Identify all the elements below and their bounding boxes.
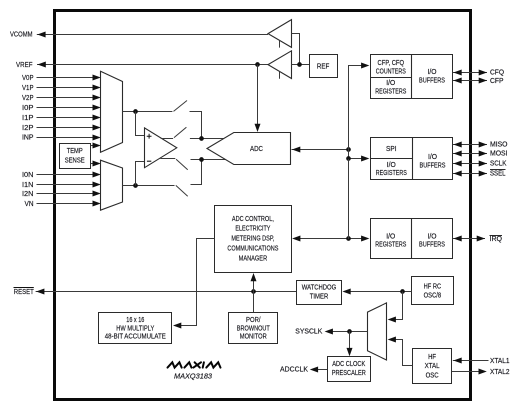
- wire VREF to ADC: [255, 65, 261, 132]
- svg-text:REGISTERS: REGISTERS: [376, 170, 407, 177]
- svg-text:I1P: I1P: [22, 115, 34, 122]
- wire CFP: [453, 78, 487, 84]
- clock mux: [368, 303, 387, 360]
- wire VN: [37, 201, 101, 207]
- svg-text:48-BIT ACCUMULATE: 48-BIT ACCUMULATE: [105, 334, 166, 341]
- wire MISO: [453, 142, 487, 148]
- svg-text:I2P: I2P: [22, 125, 34, 132]
- wire I2N: [37, 191, 101, 197]
- svg-text:MAXQ3183: MAXQ3183: [174, 373, 212, 380]
- svg-text:V1P: V1P: [22, 85, 34, 92]
- wire op-amp upper output: [161, 138, 173, 140]
- node REF output: [291, 62, 309, 67]
- svg-text:HF RC: HF RC: [424, 283, 442, 290]
- temp sense block: [60, 144, 91, 169]
- svg-text:REGISTERS: REGISTERS: [375, 89, 406, 96]
- wire I1P: [37, 115, 101, 121]
- POR brownout monitor block: [229, 313, 278, 344]
- svg-text:I1N: I1N: [22, 182, 34, 189]
- svg-text:REGISTERS: REGISTERS: [375, 242, 406, 249]
- svg-text:ADC CLOCK: ADC CLOCK: [332, 361, 365, 368]
- svg-text:TEMP: TEMP: [67, 148, 83, 155]
- svg-text:COMMUNICATIONS: COMMUNICATIONS: [227, 246, 278, 253]
- wire V0P: [37, 75, 101, 81]
- wire ADC lower input: [191, 157, 226, 162]
- svg-text:I/O: I/O: [386, 80, 396, 87]
- svg-text:SENSE: SENSE: [65, 158, 85, 165]
- svg-text:I/O: I/O: [428, 154, 438, 161]
- wire ADCCLK: [310, 367, 327, 373]
- wire I0P: [37, 105, 101, 111]
- wire op-amp - input: [136, 162, 145, 186]
- svg-text:I2N: I2N: [22, 191, 34, 198]
- svg-text:BUFFERS: BUFFERS: [419, 242, 445, 249]
- svg-text:CFP: CFP: [490, 78, 504, 85]
- wire bus to IO registers / ADC control (bidirectional): [292, 236, 369, 242]
- svg-text:I0P: I0P: [22, 105, 34, 112]
- wire I2P: [37, 125, 101, 131]
- chip outline MAXQ3183: [55, 11, 471, 400]
- wire lower mux output: [122, 183, 174, 188]
- SPI + IO registers + IO buffers block: [370, 137, 453, 179]
- svg-text:OSC: OSC: [426, 373, 439, 380]
- wire switch D to ADC bus: [191, 160, 202, 185]
- pin label IRQ (active low): [490, 236, 503, 244]
- svg-text:WATCHDOG: WATCHDOG: [302, 285, 337, 292]
- ADC control electricity metering DSP communications manager block U3: [215, 206, 292, 273]
- svg-text:SPI: SPI: [386, 146, 397, 153]
- buffer U2 (VREF driver): [268, 51, 292, 79]
- svg-text:BUFFERS: BUFFERS: [419, 77, 445, 84]
- wire RESET: [36, 289, 297, 295]
- wire HF RC osc to clock mux: [388, 292, 403, 323]
- svg-text:SSEL: SSEL: [490, 170, 506, 177]
- svg-text:MANAGER: MANAGER: [239, 255, 268, 262]
- switch chopper D (lower mux path): [176, 185, 188, 196]
- analog mux upper (voltage/current inputs): [101, 71, 123, 152]
- svg-text:TIMER: TIMER: [310, 294, 329, 301]
- wire ADC upper input: [190, 136, 224, 141]
- MAXIM logo: [168, 362, 221, 367]
- switch chopper B (op-amp upper out): [174, 127, 186, 137]
- svg-text:INP: INP: [22, 135, 34, 142]
- wire VCOMM: [37, 32, 268, 38]
- svg-text:XTAL: XTAL: [425, 363, 440, 370]
- wire switch A to ADC bus: [190, 112, 202, 139]
- svg-text:POR/: POR/: [246, 317, 261, 324]
- svg-text:I/O: I/O: [386, 233, 396, 240]
- svg-text:SYSCLK: SYSCLK: [295, 329, 322, 336]
- svg-text:PRESCALER: PRESCALER: [332, 370, 366, 377]
- wire HF RC osc to watchdog: [342, 289, 411, 295]
- IO registers + IO buffers block (IRQ): [371, 219, 453, 259]
- svg-text:CFP, CFQ: CFP, CFQ: [378, 60, 405, 67]
- wire temp sense to upper mux: [91, 143, 101, 149]
- wire SSEL: [453, 171, 487, 177]
- wire INP: [37, 135, 101, 141]
- svg-text:XTAL2: XTAL2: [490, 369, 510, 376]
- watchdog timer block: [297, 281, 342, 305]
- svg-text:VN: VN: [25, 201, 34, 208]
- wire op-amp + input: [136, 112, 145, 136]
- svg-text:V0P: V0P: [22, 75, 34, 82]
- ADC block: [207, 133, 291, 165]
- wire sysclk to ADC clock prescaler: [347, 331, 353, 356]
- svg-text:MOSI: MOSI: [490, 151, 508, 158]
- svg-text:VCOMM: VCOMM: [10, 31, 33, 38]
- buffer U1 (VCOMM driver): [268, 20, 292, 48]
- svg-text:CFQ: CFQ: [490, 70, 505, 77]
- REF block: [310, 55, 338, 78]
- wire SYSCLK: [325, 329, 368, 335]
- svg-text:I0N: I0N: [22, 172, 34, 179]
- svg-text:VREF: VREF: [16, 62, 33, 69]
- wire temp sense to lower mux: [91, 161, 101, 167]
- wire POR to ADC control / reset node: [251, 273, 257, 312]
- op-amp PGA: [145, 128, 177, 168]
- wire data bus to ADC: [292, 147, 351, 153]
- wire IRQ: [453, 236, 485, 242]
- svg-text:BROWNOUT: BROWNOUT: [237, 325, 271, 332]
- svg-text:I/O: I/O: [387, 162, 397, 169]
- svg-text:HF: HF: [428, 354, 436, 361]
- wire MOSI: [453, 151, 487, 157]
- wire SCLK: [453, 161, 487, 167]
- wire bus to CFP counters: [349, 63, 370, 159]
- svg-text:COUNTERS: COUNTERS: [376, 68, 406, 75]
- pin label SSEL: [490, 170, 506, 178]
- svg-text:REF: REF: [317, 64, 330, 71]
- wire buffer U1 input: [292, 34, 300, 65]
- svg-text:ADC CONTROL,: ADC CONTROL,: [232, 216, 274, 223]
- svg-text:ADCCLK: ADCCLK: [280, 367, 308, 374]
- svg-text:RESET: RESET: [14, 289, 35, 296]
- wire peripheral bus vertical: [348, 159, 350, 239]
- analog mux lower (return inputs): [101, 160, 123, 210]
- ADC clock prescaler block: [328, 357, 371, 382]
- svg-text:IRQ: IRQ: [490, 236, 503, 243]
- wire HF XTAL osc to clock mux: [388, 337, 413, 366]
- pin label RESET (active low): [14, 288, 35, 297]
- CFP CFQ counters + IO registers + IO buffers block: [370, 54, 453, 98]
- wire I1N: [37, 182, 101, 188]
- svg-text:XTAL1: XTAL1: [490, 358, 510, 365]
- wire op-amp lower output: [160, 158, 175, 160]
- svg-text:METERING DSP,: METERING DSP,: [231, 236, 274, 243]
- switch chopper C (op-amp lower out): [176, 159, 188, 170]
- HF XTAL oscillator block: [413, 349, 452, 384]
- wire upper mux output: [122, 109, 172, 114]
- svg-text:MISO: MISO: [490, 141, 508, 148]
- wire XTAL1: [453, 358, 489, 364]
- svg-text:I/O: I/O: [428, 69, 438, 76]
- wire I0N: [37, 172, 101, 178]
- svg-text:OSC/8: OSC/8: [424, 292, 442, 299]
- svg-text:I/O: I/O: [428, 233, 438, 240]
- svg-text:ELECTRICITY: ELECTRICITY: [235, 226, 270, 233]
- wire XTAL2: [452, 369, 487, 375]
- svg-text:ADC: ADC: [250, 146, 263, 153]
- wire CFQ: [453, 70, 487, 76]
- svg-text:MONITOR: MONITOR: [240, 334, 267, 341]
- hardware multiplier block: [99, 313, 172, 344]
- wire V2P: [37, 95, 101, 101]
- wire bus to SPI: [346, 156, 369, 162]
- HF RC oscillator block: [412, 277, 454, 305]
- wire VREF: [37, 62, 268, 68]
- svg-text:16 x 16: 16 x 16: [126, 317, 144, 324]
- svg-text:BUFFERS: BUFFERS: [420, 163, 446, 170]
- svg-text:V2P: V2P: [22, 95, 34, 102]
- wire ADC control to HW multiply: [173, 239, 215, 329]
- wire V1P: [37, 85, 101, 91]
- svg-text:HW MULTIPLY: HW MULTIPLY: [116, 325, 154, 332]
- switch chopper A (upper mux path): [174, 101, 188, 112]
- svg-text:SCLK: SCLK: [490, 161, 507, 168]
